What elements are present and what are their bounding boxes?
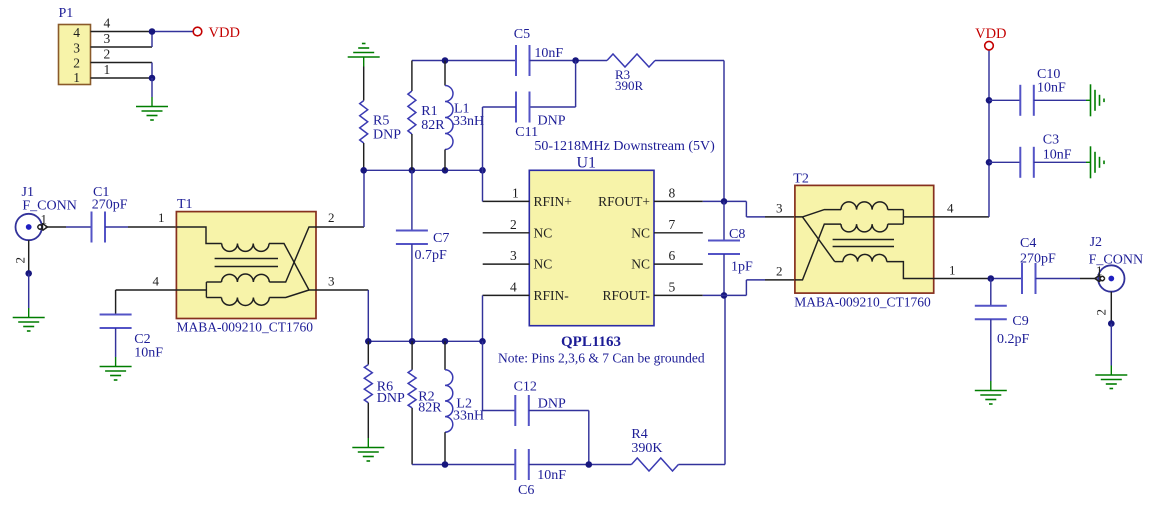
- svg-text:3: 3: [328, 274, 335, 289]
- wire C11 riser: [575, 61, 577, 108]
- T2 pin 1: [934, 263, 991, 279]
- U1 pin 2: [483, 217, 530, 233]
- ground at C2: [100, 357, 132, 380]
- svg-text:3: 3: [73, 41, 80, 56]
- svg-text:DNP: DNP: [538, 114, 566, 129]
- wire R3 to RFOUT+: [655, 60, 724, 62]
- wire R3 drop to RFOUT+: [723, 61, 725, 202]
- svg-text:270pF: 270pF: [1020, 252, 1056, 267]
- svg-text:Note: Pins 2,3,6 & 7 Can be gr: Note: Pins 2,3,6 & 7 Can be grounded: [498, 351, 705, 366]
- svg-text:4: 4: [153, 274, 160, 289]
- svg-text:82R: 82R: [418, 401, 442, 416]
- T1 pin 2: [316, 210, 364, 227]
- wire RFOUT- step to T2.2: [746, 280, 795, 296]
- svg-text:10nF: 10nF: [534, 46, 563, 61]
- svg-text:1: 1: [1096, 263, 1103, 278]
- wire J2.2 to ground: [1110, 324, 1112, 366]
- svg-text:C9: C9: [1012, 314, 1028, 329]
- svg-text:T1: T1: [177, 197, 193, 212]
- wire C12 right: [529, 410, 589, 412]
- U1 pin 7: [654, 217, 703, 233]
- svg-text:4: 4: [947, 201, 954, 216]
- junction RFIN+ at U1.1/C11: [479, 167, 486, 174]
- junction RFIN+ at L1: [442, 167, 449, 174]
- P1 pin 4 stub: [91, 16, 153, 32]
- svg-text:MABA-009210_CT1760: MABA-009210_CT1760: [177, 320, 314, 335]
- svg-text:2: 2: [1094, 309, 1109, 316]
- wire RFOUT+ step to T2.3: [746, 201, 795, 217]
- resistor R6 DNP: [364, 341, 405, 438]
- junction RFIN- at U1.4/C12: [479, 338, 486, 345]
- wire U1.4 drop: [482, 295, 484, 341]
- svg-text:RFOUT-: RFOUT-: [602, 288, 650, 303]
- wire C6 to R4: [529, 464, 632, 466]
- capacitor C5 10nF: [514, 27, 564, 76]
- svg-text:C4: C4: [1020, 236, 1036, 251]
- svg-text:RFIN+: RFIN+: [534, 194, 572, 209]
- inductor L1 33nH: [445, 61, 484, 171]
- svg-text:33nH: 33nH: [453, 114, 484, 129]
- wire R4 riser to RFOUT-: [724, 295, 726, 464]
- wire RFIN+ bus: [364, 169, 483, 171]
- svg-text:U1: U1: [577, 155, 597, 172]
- wire C4 to J2: [1036, 278, 1081, 280]
- svg-text:10nF: 10nF: [1037, 81, 1066, 96]
- U1 pin 8: [654, 185, 703, 201]
- svg-text:390K: 390K: [631, 441, 662, 456]
- wire C10 to ground: [1034, 99, 1086, 101]
- wire C8 bottom: [723, 254, 725, 295]
- junction VDD/C3: [986, 159, 993, 166]
- ground at J1: [13, 308, 45, 331]
- svg-text:2: 2: [73, 56, 80, 71]
- wire VDD to C3: [989, 161, 1020, 163]
- svg-text:R5: R5: [373, 114, 389, 129]
- svg-text:MABA-009210_CT1760: MABA-009210_CT1760: [794, 295, 931, 310]
- wire top rail (R1/L1 to C5): [412, 60, 516, 62]
- wire VDD rail: [988, 50, 990, 217]
- junction C5/C11: [572, 57, 579, 64]
- svg-text:4: 4: [73, 25, 80, 40]
- svg-text:C11: C11: [515, 125, 538, 140]
- svg-text:P1: P1: [59, 6, 74, 21]
- wire C3 to ground: [1034, 161, 1086, 163]
- wire T2.1 to C4: [991, 278, 1022, 280]
- wire R4 to RFOUT-: [678, 464, 725, 466]
- svg-text:50-1218MHz Downstream (5V): 50-1218MHz Downstream (5V): [534, 139, 715, 154]
- wire T1.3 down to RFIN- bus: [367, 290, 369, 341]
- svg-text:NC: NC: [631, 225, 650, 240]
- junction RFOUT+ at C8: [721, 198, 728, 205]
- svg-text:R4: R4: [631, 427, 647, 442]
- connector J1 F_CONN: [16, 185, 77, 240]
- svg-text:6: 6: [669, 248, 676, 263]
- junction RFIN- at L2: [442, 338, 449, 345]
- capacitor C9 0.2pF: [975, 306, 1030, 347]
- junction RFIN+ at R1/C7: [409, 167, 416, 174]
- inductor L2 33nH: [445, 341, 484, 464]
- junction lower rail at L2: [442, 461, 449, 468]
- wire P1 ground: [151, 78, 153, 97]
- svg-text:1pF: 1pF: [731, 260, 753, 275]
- ground at C3: [1086, 146, 1104, 178]
- svg-text:VDD: VDD: [209, 25, 240, 41]
- junction RFIN+ at T1.2/R5: [360, 167, 367, 174]
- svg-text:10nF: 10nF: [1043, 148, 1072, 163]
- junction RFOUT- at C8/R4: [721, 292, 728, 299]
- svg-text:NC: NC: [631, 257, 650, 272]
- svg-text:J2: J2: [1090, 235, 1102, 250]
- wire VDD node to power port: [152, 31, 193, 33]
- op-amp U1 QPL1163: [498, 155, 705, 366]
- junction C9 tap: [988, 275, 995, 282]
- wire C11 down to RFIN+: [482, 107, 484, 170]
- svg-text:C12: C12: [514, 380, 537, 395]
- T2 pin 4: [934, 201, 989, 217]
- svg-text:270pF: 270pF: [92, 198, 128, 213]
- wire C9 drop: [990, 279, 992, 306]
- svg-text:390R: 390R: [615, 78, 644, 93]
- wire T1.4 down to C2: [115, 290, 117, 315]
- svg-text:QPL1163: QPL1163: [561, 334, 621, 350]
- U1 pin 4: [483, 279, 530, 295]
- T1 pin 4: [116, 274, 177, 291]
- capacitor C7 0.7pF: [396, 231, 449, 264]
- capacitor C6 10nF: [515, 449, 566, 498]
- wire C12 left: [483, 410, 516, 412]
- svg-text:C3: C3: [1043, 133, 1059, 148]
- ground above R5: [348, 44, 380, 67]
- wire C11 left: [483, 106, 517, 108]
- svg-text:DNP: DNP: [538, 397, 566, 412]
- wire U1.8 to T2 node: [703, 200, 747, 202]
- power port VDD (left): [193, 25, 240, 41]
- P1 pin 1 stub: [91, 62, 153, 78]
- wire C5 to R3: [530, 60, 608, 62]
- svg-text:VDD: VDD: [975, 26, 1006, 42]
- transformer T1 MABA-009210_CT1760: [176, 197, 316, 335]
- svg-text:DNP: DNP: [377, 391, 405, 406]
- wire T1.2 up to RFIN+ bus: [363, 170, 365, 227]
- wire RFIN+ to C7: [411, 170, 413, 230]
- U1 pin 6: [654, 248, 703, 264]
- capacitor C1 270pF: [92, 185, 128, 243]
- svg-text:0.7pF: 0.7pF: [415, 248, 448, 263]
- wire C12 drop from RFIN-: [482, 341, 484, 410]
- svg-text:2: 2: [776, 264, 783, 279]
- wire RFIN- bus: [368, 340, 482, 342]
- svg-text:82R: 82R: [421, 118, 445, 133]
- capacitor C3 10nF: [1020, 133, 1072, 178]
- capacitor C10 10nF: [1020, 67, 1066, 116]
- junction top rail at L1: [442, 57, 449, 64]
- junction P1 ground node: [149, 75, 156, 82]
- wire P1.2 down to pin1 net: [151, 63, 153, 79]
- svg-text:1: 1: [949, 263, 956, 278]
- svg-text:2: 2: [510, 217, 517, 232]
- junction C6/C12/R4: [586, 461, 593, 468]
- wire P1.3 to VDD node: [151, 32, 153, 48]
- wire C11 right: [530, 106, 576, 108]
- capacitor C2 10nF: [100, 315, 164, 361]
- junction VDD/C10: [986, 97, 993, 104]
- svg-text:C8: C8: [729, 227, 745, 242]
- capacitor C11 DNP: [515, 92, 565, 141]
- svg-text:2: 2: [328, 210, 335, 225]
- wire C8 top: [723, 201, 725, 240]
- resistor R5 DNP: [360, 67, 402, 171]
- svg-text:8: 8: [669, 185, 676, 200]
- svg-text:3: 3: [510, 248, 517, 263]
- resistor R1 82R: [408, 61, 445, 171]
- U1 pin 5: [654, 279, 703, 295]
- svg-text:R1: R1: [421, 104, 437, 119]
- svg-text:4: 4: [510, 279, 517, 294]
- svg-text:RFIN-: RFIN-: [534, 288, 570, 303]
- T1 pin 3: [316, 274, 368, 291]
- capacitor C12 DNP: [514, 380, 566, 427]
- svg-text:10nF: 10nF: [537, 468, 566, 483]
- U1 pin 3: [483, 248, 530, 264]
- ground at P1: [136, 97, 168, 120]
- svg-text:NC: NC: [534, 257, 553, 272]
- svg-text:NC: NC: [534, 225, 553, 240]
- wire C7 to RFIN- bus: [411, 244, 413, 341]
- svg-text:C7: C7: [433, 231, 449, 246]
- ground at C10: [1086, 84, 1104, 116]
- J1 pin 1 stub: [41, 212, 67, 228]
- svg-text:F_CONN: F_CONN: [22, 199, 76, 214]
- svg-text:C6: C6: [518, 483, 534, 498]
- svg-text:1: 1: [41, 212, 48, 227]
- wire C2 to ground: [115, 328, 117, 357]
- junction RFIN- at T1.3/R6: [365, 338, 372, 345]
- resistor R4 390K: [631, 427, 678, 471]
- P1 pin 2 stub: [91, 47, 153, 63]
- svg-text:2: 2: [104, 47, 111, 62]
- svg-text:33nH: 33nH: [453, 409, 484, 424]
- transformer T2 MABA-009210_CT1760: [793, 172, 933, 310]
- svg-text:3: 3: [104, 31, 111, 46]
- junction VDD node: [149, 28, 156, 35]
- wire U1.1 riser: [482, 170, 484, 201]
- svg-text:T2: T2: [793, 172, 809, 187]
- T1 pin 1: [128, 210, 176, 227]
- svg-text:2: 2: [13, 257, 28, 264]
- junction RFIN- at R2/C7: [409, 338, 416, 345]
- P1 pin 3 stub: [91, 31, 153, 47]
- wire C12 down to R4 node: [588, 411, 590, 465]
- svg-text:DNP: DNP: [373, 128, 401, 143]
- svg-text:7: 7: [669, 217, 676, 232]
- ground below R6: [352, 438, 384, 461]
- ground at C9: [975, 381, 1007, 404]
- svg-text:1: 1: [73, 70, 80, 85]
- junction J1 pin2: [25, 270, 32, 277]
- connector P1: [59, 6, 91, 85]
- wire J1.1 to C1: [66, 226, 92, 228]
- svg-text:4: 4: [104, 16, 111, 31]
- svg-text:1: 1: [104, 62, 111, 77]
- junction J2 pin2: [1108, 320, 1115, 327]
- J2 pin 1 stub: [1080, 263, 1103, 279]
- wire VDD to C10: [989, 99, 1020, 101]
- svg-text:10nF: 10nF: [134, 346, 163, 361]
- svg-text:0.2pF: 0.2pF: [997, 332, 1030, 347]
- connector J2 F_CONN: [1089, 235, 1143, 292]
- ground at J2: [1095, 366, 1127, 389]
- resistor R2 82R: [408, 341, 442, 464]
- capacitor C8 1pF: [708, 227, 753, 275]
- J2 pin 2 stub: [1094, 292, 1112, 324]
- wire lower rail R2 to C6: [412, 464, 515, 466]
- capacitor C4 270pF: [1020, 236, 1056, 294]
- svg-text:1: 1: [158, 210, 165, 225]
- svg-text:C5: C5: [514, 27, 530, 42]
- J1 pin 2 stub: [13, 240, 29, 273]
- wire J1.2 to ground: [28, 273, 30, 308]
- wire C9 to ground: [990, 319, 992, 381]
- svg-text:1: 1: [512, 185, 519, 200]
- U1 pin 1: [483, 185, 530, 201]
- svg-text:RFOUT+: RFOUT+: [598, 194, 650, 209]
- power port VDD (right): [975, 26, 1006, 50]
- wire C1 to T1.1: [105, 226, 128, 228]
- svg-text:5: 5: [669, 279, 676, 294]
- resistor R3 390R: [607, 54, 655, 93]
- wire U1.5 to T2 node: [703, 294, 747, 296]
- svg-text:3: 3: [776, 201, 783, 216]
